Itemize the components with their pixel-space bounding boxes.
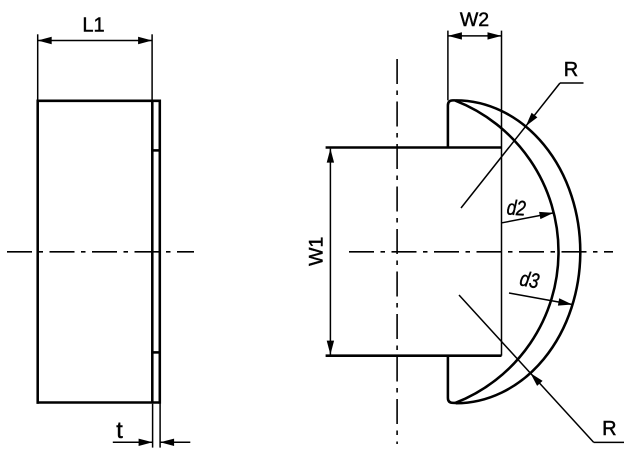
svg-text:L1: L1 (82, 15, 104, 37)
svg-text:d2: d2 (506, 196, 527, 220)
arrow d3 (558, 298, 572, 305)
body bottom edge (326, 354, 502, 357)
tick upper on crown strip (151, 149, 161, 152)
dimension t line left part (113, 441, 153, 443)
dimension L1 extension left (37, 34, 39, 99)
centerline vertical, right view (396, 59, 398, 444)
arrow t left (139, 439, 153, 446)
body left edge (36, 100, 39, 404)
hub top outline (448, 100, 456, 147)
centerline horizontal, right view (349, 251, 613, 253)
dimension W2 extension left (447, 31, 449, 101)
crown right edge (159, 100, 162, 404)
svg-text:W1: W1 (306, 237, 328, 266)
dimension W1 line (329, 149, 331, 355)
svg-text:R: R (602, 418, 616, 440)
leader R top slant (461, 83, 560, 208)
outer crown arc (R, d3) (456, 100, 581, 403)
leader R bottom slant (459, 295, 594, 442)
body bottom edge (37, 401, 162, 404)
dimension L1 line (38, 40, 152, 42)
dimension t extension right (159, 404, 161, 448)
arrow L1 right (138, 37, 152, 44)
inner crown arc (d2) (455, 101, 558, 403)
crown parting line (151, 101, 154, 403)
body top edge (326, 146, 502, 149)
tick lower on crown strip (151, 351, 161, 354)
svg-text:W2: W2 (460, 9, 489, 31)
svg-text:t: t (116, 417, 123, 443)
arrow W1 top (327, 149, 334, 163)
leader R top shoulder (560, 82, 584, 84)
arrow W2 left (448, 32, 462, 39)
leader d3 (509, 293, 572, 305)
centerline horizontal, left view (7, 251, 194, 253)
leader R bottom shoulder (594, 441, 624, 443)
dimension t line right part (160, 441, 190, 443)
arrow L1 left (38, 37, 52, 44)
dimension W2 extension right / chord line (501, 31, 503, 356)
hub bottom outline (448, 356, 456, 403)
dimension W2 line (448, 35, 502, 37)
svg-text:R: R (564, 59, 578, 81)
arrow t right (160, 439, 174, 446)
leader d2 (502, 213, 554, 223)
arrow d2 (539, 212, 553, 219)
arrow W1 bottom (327, 341, 334, 355)
arrow W2 right (488, 32, 502, 39)
dimension L1 extension right (151, 34, 153, 100)
dimension t extension left (152, 404, 154, 448)
arrow R bottom (530, 373, 542, 386)
arrow R top (526, 113, 538, 126)
body top edge (37, 100, 162, 103)
